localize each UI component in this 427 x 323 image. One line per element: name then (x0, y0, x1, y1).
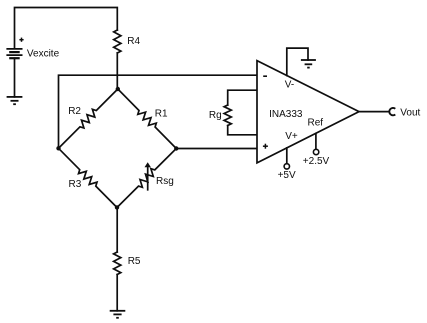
node bridge top (116, 87, 120, 91)
pin label Ref (308, 118, 324, 129)
ground at V- pin (301, 60, 316, 68)
svg-text:R3: R3 (69, 179, 82, 190)
wire bridge bottom to R5 (116, 208, 118, 253)
label R2 (68, 106, 81, 117)
wire bridge right to op-amp plus input (176, 148, 257, 150)
node bridge left (56, 146, 60, 150)
label R4 (127, 36, 140, 47)
wire V+ pin (286, 148, 288, 164)
label R5 (128, 256, 141, 267)
svg-text:INA333: INA333 (269, 109, 303, 120)
svg-text:R4: R4 (127, 36, 140, 47)
svg-text:V-: V- (285, 80, 294, 91)
wire R4 to bridge top node (116, 53, 118, 89)
wire Ref pin (315, 133, 317, 149)
op-amp U1 INA333 (257, 61, 359, 163)
label INA333 (269, 109, 303, 120)
label Rg (209, 110, 222, 121)
node bridge right (174, 146, 178, 150)
svg-text:R2: R2 (68, 106, 81, 117)
wire R5 to ground (116, 275, 118, 311)
label Vout (400, 107, 420, 118)
resistor R2 (59, 89, 118, 148)
ground below R5 (110, 311, 126, 318)
wire top from Vexcite to R4 (15, 8, 118, 49)
resistor R4 (114, 30, 121, 53)
svg-text:Rg: Rg (209, 110, 222, 121)
node bridge bottom (115, 205, 119, 209)
svg-text:Vout: Vout (400, 107, 420, 118)
svg-text:V+: V+ (285, 131, 298, 142)
resistor R5 (114, 252, 121, 275)
label R1 (155, 108, 168, 119)
ground below Vexcite (7, 97, 23, 104)
op-amp minus input symbol (263, 75, 267, 77)
resistor Rg (224, 90, 257, 135)
label R3 (69, 179, 82, 190)
svg-text:Rsg: Rsg (156, 176, 174, 187)
pin label V+ (285, 131, 298, 142)
wire output (359, 111, 389, 113)
label +2.5V (303, 156, 330, 167)
svg-text:R1: R1 (155, 108, 168, 119)
label +5V (278, 170, 296, 181)
wire Vexcite to ground (14, 58, 16, 97)
resistor R3 (59, 148, 118, 207)
svg-text:+5V: +5V (278, 170, 296, 181)
resistor R1 (118, 89, 177, 149)
terminal Vout (389, 108, 395, 115)
wire V- pin to ground (287, 48, 308, 75)
svg-text:R5: R5 (128, 256, 141, 267)
svg-text:Vexcite: Vexcite (27, 49, 60, 60)
terminal +2.5V (313, 149, 318, 154)
terminal +5V (284, 164, 289, 169)
label Vexcite (27, 49, 60, 60)
strain gauge resistor Rsg (117, 149, 176, 208)
op-amp plus input symbol (263, 144, 268, 149)
svg-text:Ref: Ref (308, 118, 324, 129)
wire bridge left to op-amp minus input (59, 75, 258, 148)
voltage source Vexcite (6, 38, 23, 59)
svg-text:+2.5V: +2.5V (303, 156, 330, 167)
label Rsg (156, 176, 174, 187)
pin label V- (285, 80, 294, 91)
